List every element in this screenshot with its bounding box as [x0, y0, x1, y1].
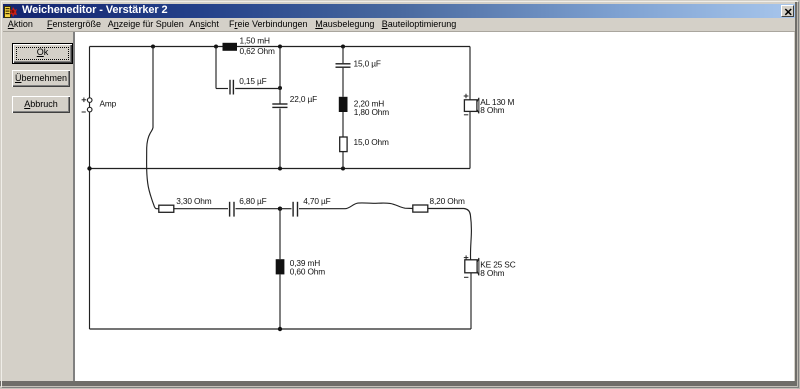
capacitor 6,80 µF [230, 196, 267, 217]
amplifier Amp terminals [82, 98, 117, 113]
node branch midwoofer [341, 45, 345, 49]
application icon [4, 5, 17, 23]
capacitor 0,15 µF [230, 76, 267, 95]
wire resistor to cap [174, 208, 228, 210]
wire shunt branch upper [279, 47, 281, 104]
wire bottom rail [90, 328, 472, 330]
wire cap to inductor [342, 68, 344, 97]
wire shunt branch lower [279, 109, 281, 169]
node return 22uF [278, 167, 282, 171]
node parallel cap right [278, 86, 282, 90]
menu bar [3, 18, 796, 31]
left button panel [2, 32, 75, 382]
speaker KE 25 SC [464, 255, 516, 278]
node inductor L1 right [278, 45, 282, 49]
Abbruch button [12, 96, 70, 113]
close button [781, 5, 794, 17]
wire curve down to tweeter [428, 209, 472, 260]
wire node down to inductor [279, 209, 281, 260]
inductor 2,20 mH 1,80 Ohm [339, 97, 389, 117]
speaker AL 130 M [464, 94, 515, 116]
wire wavy freeform segment [299, 203, 413, 209]
resistor 3,30 Ohm [159, 196, 212, 212]
Übernehmen button [12, 70, 70, 87]
inductor L1 1,50 mH 0,62 Ohm [223, 35, 275, 56]
wire inductor to bottom rail [279, 274, 281, 329]
wire parallel branch left [216, 47, 228, 89]
wire resistor to return rail [342, 152, 344, 169]
wire right rail upper [469, 47, 471, 169]
bottom band [0, 381, 800, 386]
wire freeform drop to tweeter filter [147, 47, 159, 209]
inductor 0,39 mH 0,60 Ohm [276, 258, 326, 277]
wire left rail [89, 47, 91, 330]
resistor 8,20 Ohm [413, 196, 465, 212]
Ok button (default) [12, 43, 73, 64]
node top rail branch tweeter [151, 45, 155, 49]
capacitor 22,0 µF [272, 94, 317, 107]
wire inductor to resistor [342, 112, 344, 137]
wire top rail [90, 46, 471, 48]
wire tweeter to bottom rail [470, 273, 472, 329]
resistor 15,0 Ohm [340, 137, 389, 152]
wire cap to node [236, 208, 281, 210]
title bar [3, 4, 796, 18]
wire upper return rail [90, 168, 471, 170]
node tweeter shunt [278, 207, 282, 211]
node return midwoofer branch [341, 167, 345, 171]
wire parallel branch right [235, 88, 280, 90]
capacitor 4,70 µF [293, 196, 331, 217]
node inductor L1 left [214, 45, 218, 49]
node bottom rail [278, 327, 282, 331]
wire node to cap [280, 208, 292, 210]
capacitor 15,0 µF [336, 59, 381, 69]
wire midwoofer branch top [342, 47, 344, 64]
node left return [87, 166, 91, 170]
